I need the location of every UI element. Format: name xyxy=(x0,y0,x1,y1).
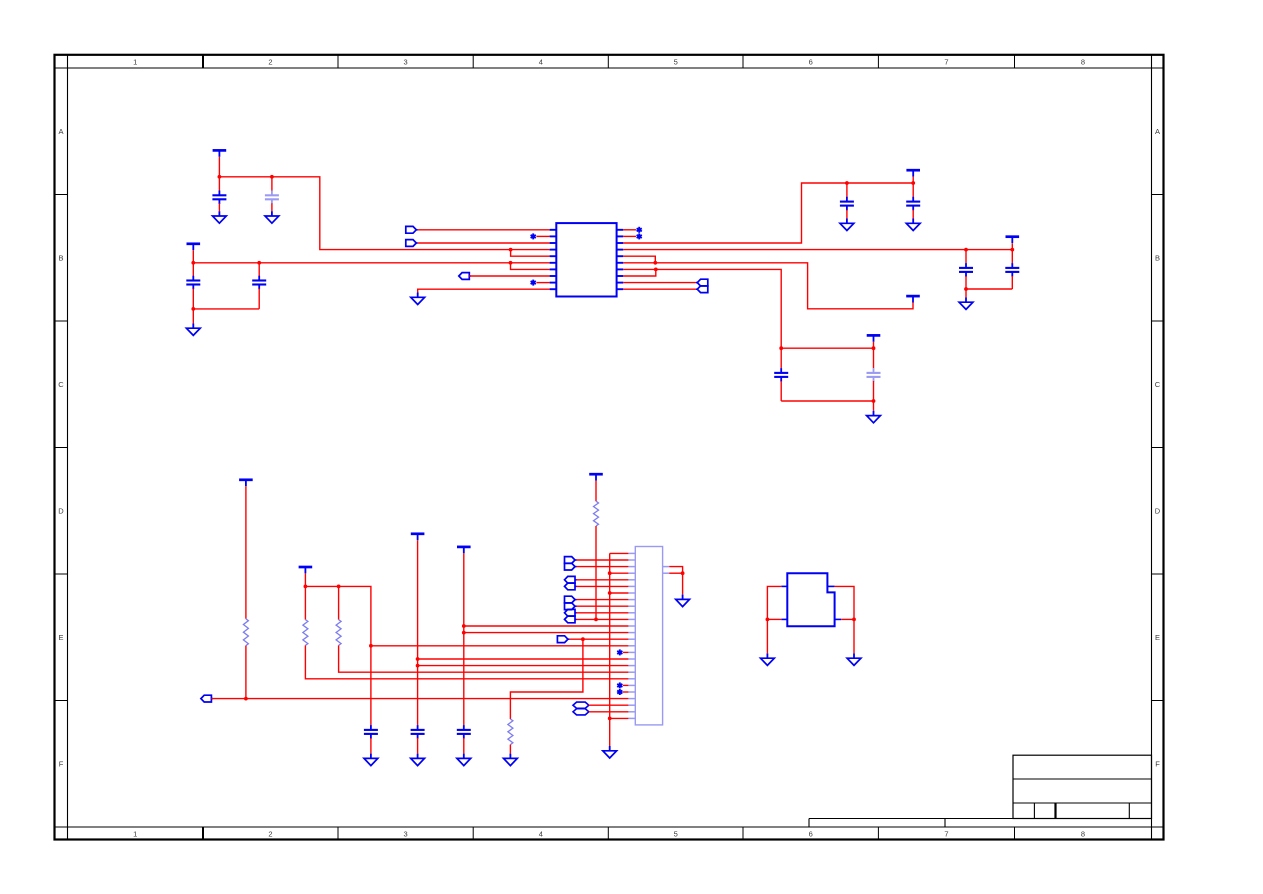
junction xyxy=(257,261,261,265)
wire to J1 pin10 xyxy=(576,612,628,614)
ground xyxy=(411,754,425,766)
wire J1 pin16 stub xyxy=(623,651,629,653)
power symbol VCC5 xyxy=(906,296,920,302)
svg-text:D: D xyxy=(1155,507,1161,516)
off-page connector xyxy=(565,616,577,623)
net marker xyxy=(531,233,536,239)
svg-text:6: 6 xyxy=(809,829,813,838)
svg-text:5: 5 xyxy=(674,57,678,66)
capacitor C10 xyxy=(867,368,881,382)
wire C9 bottom lead xyxy=(780,381,782,401)
svg-text:D: D xyxy=(58,507,64,516)
svg-text:C: C xyxy=(1155,380,1161,389)
ground xyxy=(364,754,378,766)
junction xyxy=(594,618,598,622)
wire X1 right to ground xyxy=(835,586,854,653)
power symbol VCC2 xyxy=(187,244,201,250)
svg-text:8: 8 xyxy=(1081,57,1085,66)
wire to U1 pin9 xyxy=(536,282,549,284)
junction xyxy=(218,175,222,179)
svg-text:A: A xyxy=(1155,127,1160,136)
wire J1 right pins to ground xyxy=(669,567,682,595)
wire cap bottom rail xyxy=(193,308,259,310)
wire to R2 xyxy=(510,639,583,719)
capacitor C11 xyxy=(411,725,425,739)
capacitor C3 xyxy=(186,276,200,290)
net marker xyxy=(617,649,622,655)
wire C10 top lead xyxy=(873,348,875,368)
junction xyxy=(1010,248,1014,252)
capacitor C9 xyxy=(774,368,788,382)
ground xyxy=(867,411,881,423)
ground xyxy=(411,293,425,305)
net marker xyxy=(637,227,642,233)
junction xyxy=(872,346,876,350)
off-page connector xyxy=(201,695,213,702)
junction xyxy=(852,618,856,622)
junction xyxy=(766,618,770,622)
capacitor C1 xyxy=(212,191,226,205)
wire U1 pin9 to off-page xyxy=(623,282,697,284)
svg-text:E: E xyxy=(1155,633,1160,642)
junction xyxy=(779,346,783,350)
off-page connector xyxy=(459,273,471,280)
wire to J1 pin9 xyxy=(576,605,628,607)
junction xyxy=(964,287,968,291)
X1 pin stubs xyxy=(781,586,841,619)
svg-text:7: 7 xyxy=(944,829,948,838)
wire J1 pin22 stub xyxy=(623,691,629,693)
power symbol VCC6 xyxy=(867,335,881,341)
junction xyxy=(964,248,968,252)
wire C8 bottom lead xyxy=(1011,276,1013,289)
wire VCC2 rail to U1 pin6 xyxy=(193,262,549,264)
wire C13 to ground xyxy=(370,738,372,754)
wire VCC11 rail and vertical xyxy=(305,586,371,725)
power symbol VCC10 xyxy=(457,547,471,553)
wire VCC1 rail to U1 pin4 xyxy=(219,177,549,250)
off-page connector xyxy=(696,286,708,293)
wire to J1 pin17 xyxy=(418,658,629,660)
wire C10 bottom lead xyxy=(873,381,875,401)
junction xyxy=(462,624,466,628)
svg-text:3: 3 xyxy=(404,829,408,838)
power symbol VCC9 xyxy=(411,534,425,540)
ground xyxy=(504,754,518,766)
wire to U1 pin3 xyxy=(418,242,550,244)
off-page connector xyxy=(565,576,577,583)
crystal X1 xyxy=(787,573,834,626)
wire VCC10 vertical xyxy=(463,553,465,725)
off-page connector xyxy=(565,603,577,610)
junction xyxy=(416,657,420,661)
net marker xyxy=(617,682,622,688)
junction xyxy=(654,268,658,272)
wire R5 to J1 pin19 xyxy=(339,645,629,672)
wire C5 bottom lead xyxy=(846,210,848,219)
svg-text:A: A xyxy=(58,127,63,136)
wire to U1 pin8 xyxy=(469,275,549,277)
wire to J1 pin11 xyxy=(576,618,628,620)
junction xyxy=(509,261,513,265)
svg-text:2: 2 xyxy=(268,829,272,838)
ground xyxy=(265,211,279,223)
junction xyxy=(304,585,308,589)
connector J1 xyxy=(635,547,662,725)
wire cap bottom rail xyxy=(781,400,873,402)
wire C6 bottom lead xyxy=(912,210,914,219)
wire C3 bottom lead xyxy=(192,289,194,309)
svg-text:F: F xyxy=(1155,760,1160,769)
wire VCC3 stub xyxy=(912,177,914,183)
capacitor C12 xyxy=(457,725,471,739)
junction xyxy=(681,571,685,575)
svg-text:4: 4 xyxy=(539,829,543,838)
wire R3 to rail xyxy=(245,646,247,699)
off-page connector bubble xyxy=(573,709,589,715)
svg-text:4: 4 xyxy=(539,57,543,66)
svg-text:E: E xyxy=(58,633,63,642)
junction xyxy=(462,631,466,635)
wire cap bottom rail xyxy=(966,288,1012,290)
wire ground bus xyxy=(609,553,611,746)
power symbol VCC4 xyxy=(1006,237,1020,243)
wire J1 right pin4 xyxy=(669,572,682,574)
resistor R2 xyxy=(508,719,513,745)
wire VCC7 to R1 xyxy=(595,481,597,502)
wire VCC11 to R4 xyxy=(304,586,306,619)
wire C7 bottom lead xyxy=(965,276,967,289)
off-page connector xyxy=(406,240,418,247)
svg-text:F: F xyxy=(59,760,64,769)
resistor R1 xyxy=(594,501,599,526)
off-page connector bubble xyxy=(573,702,589,708)
wire C3 top lead xyxy=(192,263,194,276)
wire VCC2 stub xyxy=(192,250,194,263)
wire C12 to ground xyxy=(463,738,465,754)
capacitor C5 xyxy=(840,197,854,211)
wire to U1 pin2 xyxy=(536,235,549,237)
svg-text:3: 3 xyxy=(404,57,408,66)
junction xyxy=(872,399,876,403)
junction xyxy=(509,248,513,252)
wire VCC1 stub xyxy=(218,157,220,177)
wire to J1 pin13 xyxy=(464,632,629,634)
wire R2 to ground xyxy=(509,745,511,754)
wire to J1 pin4 xyxy=(610,572,629,574)
wire C11 to ground xyxy=(417,738,419,754)
wire to J1 pin7 xyxy=(610,592,629,594)
wire bottom rail to J1 pin23 xyxy=(211,698,628,700)
junction xyxy=(191,307,195,311)
capacitor C6 xyxy=(906,197,920,211)
ground xyxy=(603,746,617,758)
power symbol VCC3 xyxy=(906,170,920,176)
wire to J1 pin5 xyxy=(576,579,628,581)
J1 left pin stubs xyxy=(628,553,635,718)
ground xyxy=(457,754,471,766)
junction xyxy=(581,637,585,641)
junction xyxy=(416,664,420,668)
junction xyxy=(653,261,657,265)
junction xyxy=(608,571,612,575)
wire R1 to net xyxy=(595,526,597,619)
wire VCC11 stub xyxy=(304,573,306,586)
wire to J1 pin8 xyxy=(576,599,628,601)
junction xyxy=(244,697,248,701)
ground xyxy=(847,653,861,665)
wire to J1 pin14 xyxy=(569,638,628,640)
wire to J1 pin15 xyxy=(371,645,629,647)
junction xyxy=(191,261,195,265)
off-page connector xyxy=(557,636,569,643)
wire VCC11 to R5 xyxy=(338,586,340,619)
wire to J1 pin12 xyxy=(464,625,629,627)
wire U1 pin4 to right cap bank xyxy=(623,243,1012,249)
power symbol VCC8 xyxy=(239,480,253,486)
resistor R3 xyxy=(243,619,248,646)
net marker xyxy=(531,280,536,286)
junction xyxy=(337,585,341,589)
wire C4 bottom lead xyxy=(258,289,260,309)
wire VCC8 to R3 xyxy=(245,486,247,619)
wire cap bank rail xyxy=(781,347,873,349)
svg-text:5: 5 xyxy=(674,829,678,838)
wire VCC9 vertical xyxy=(417,540,419,725)
wire to ground xyxy=(873,401,875,411)
wire C4 top lead xyxy=(258,263,260,276)
wire U1 pin5 jog xyxy=(623,256,655,263)
junction xyxy=(845,181,849,185)
wire X1 right pin2 xyxy=(841,618,854,620)
ground xyxy=(761,653,775,665)
junction xyxy=(911,181,915,185)
svg-text:7: 7 xyxy=(944,57,948,66)
wire to J1 pin3 xyxy=(576,566,628,568)
wire to J1 pin18 xyxy=(418,665,629,667)
wire J1 pin21 stub xyxy=(623,684,629,686)
wire U1 pin6 to VCC5 xyxy=(623,263,913,309)
ground xyxy=(186,323,200,335)
svg-text:6: 6 xyxy=(809,57,813,66)
svg-text:B: B xyxy=(58,254,63,263)
wire to J1 pin6 xyxy=(576,585,628,587)
wire C5 top lead xyxy=(846,183,848,197)
wire X1 left pin2 xyxy=(767,618,781,620)
svg-text:C: C xyxy=(58,380,64,389)
wire C9 top lead xyxy=(780,348,782,368)
off-page connector xyxy=(565,563,577,570)
wire C2 top lead xyxy=(271,177,273,191)
wire R4 to J1 pin20 xyxy=(305,645,628,678)
wire U1 pin10 to off-page xyxy=(623,288,697,290)
wire branch to U1 pin5 xyxy=(511,250,550,257)
U1 right pin stubs xyxy=(617,230,624,289)
wire U1 pin7 to lower cap bank xyxy=(623,269,781,348)
wire to J1 pin2 xyxy=(576,559,628,561)
wire to J1 pin1 xyxy=(610,552,629,554)
off-page connector xyxy=(565,609,577,616)
off-page connector xyxy=(565,596,577,603)
wire U1 pin8 jog xyxy=(623,269,656,276)
wire C1 bottom lead xyxy=(218,203,220,211)
wire C1 top lead xyxy=(218,177,220,191)
wire U1 pin10 to ground xyxy=(418,289,550,292)
junction xyxy=(369,644,373,648)
wire C8 top lead xyxy=(1011,250,1013,264)
capacitor C13 xyxy=(364,725,378,739)
wire U1 pin2 right stub xyxy=(623,235,636,237)
junction xyxy=(270,175,274,179)
capacitor C7 xyxy=(959,263,973,277)
wire branch to U1 pin7 xyxy=(511,263,550,270)
capacitor C8 xyxy=(1005,263,1019,277)
ground xyxy=(213,211,227,223)
wire to J1 pin26 xyxy=(610,717,629,719)
U1 left pin stubs xyxy=(550,230,557,289)
capacitor C2 xyxy=(265,191,279,205)
svg-text:1: 1 xyxy=(133,57,137,66)
wire X1 left to ground xyxy=(767,586,781,653)
wire C2 bottom lead xyxy=(271,203,273,211)
off-page connector xyxy=(565,583,577,590)
ground xyxy=(959,297,973,309)
off-page connector xyxy=(406,226,418,233)
wire VCC6 stub xyxy=(873,342,875,348)
wire C7 top lead xyxy=(965,250,967,264)
off-page connector xyxy=(696,279,708,286)
wire to ground xyxy=(192,309,194,324)
svg-text:1: 1 xyxy=(133,829,137,838)
net marker xyxy=(637,233,642,239)
net marker xyxy=(617,689,622,695)
IC U1 xyxy=(556,223,616,296)
wire C6 top lead xyxy=(912,183,914,197)
wire to ground xyxy=(965,289,967,297)
svg-text:B: B xyxy=(1155,254,1160,263)
ground xyxy=(676,595,690,607)
wire U1 pin1 right stub xyxy=(623,229,636,231)
svg-text:8: 8 xyxy=(1081,829,1085,838)
capacitor C4 xyxy=(252,276,266,290)
ground xyxy=(906,219,920,231)
off-page connector xyxy=(565,557,577,564)
resistor R4 xyxy=(303,620,308,646)
J1 right pin stubs xyxy=(663,567,670,574)
junction xyxy=(608,591,612,595)
svg-text:2: 2 xyxy=(268,57,272,66)
wire to J1 pin25 xyxy=(589,711,629,713)
wire U1 pin3 to cap bank rail xyxy=(623,183,913,243)
wire to U1 pin1 xyxy=(418,229,550,231)
ground xyxy=(840,219,854,231)
resistor R5 xyxy=(336,620,341,646)
junction xyxy=(608,717,612,721)
power symbol VCC1 xyxy=(213,150,227,156)
power symbol VCC7 xyxy=(589,474,603,480)
wire to J1 pin24 xyxy=(589,704,629,706)
power symbol VCC11 xyxy=(299,567,313,573)
